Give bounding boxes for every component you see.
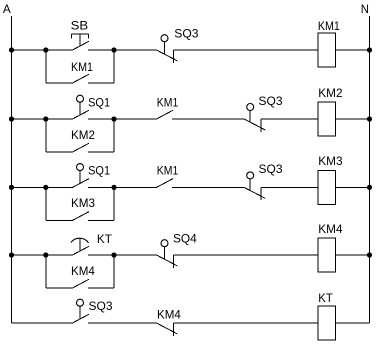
svg-text:KM3: KM3 [318, 154, 342, 168]
svg-text:SQ3: SQ3 [89, 299, 113, 313]
svg-text:KT: KT [318, 291, 333, 305]
svg-text:SQ3: SQ3 [259, 162, 283, 176]
svg-text:KM3: KM3 [71, 196, 95, 210]
svg-text:SQ1: SQ1 [88, 163, 110, 177]
svg-text:KT: KT [97, 232, 112, 246]
svg-text:N: N [361, 2, 369, 16]
svg-text:KM1: KM1 [157, 163, 179, 177]
svg-text:KM2: KM2 [71, 128, 95, 142]
svg-text:KM1: KM1 [318, 19, 340, 33]
svg-text:SQ1: SQ1 [88, 95, 110, 109]
svg-text:KM1: KM1 [157, 95, 179, 109]
svg-text:KM4: KM4 [318, 222, 342, 236]
svg-text:KM4: KM4 [71, 264, 95, 278]
svg-text:A: A [3, 2, 11, 16]
svg-text:KM2: KM2 [318, 86, 342, 100]
svg-text:SQ4: SQ4 [173, 231, 197, 245]
svg-text:SQ3: SQ3 [259, 94, 283, 108]
svg-text:SQ3: SQ3 [174, 27, 198, 41]
svg-text:KM4: KM4 [157, 307, 181, 321]
svg-text:KM1: KM1 [71, 60, 93, 74]
svg-text:SB: SB [71, 19, 89, 33]
